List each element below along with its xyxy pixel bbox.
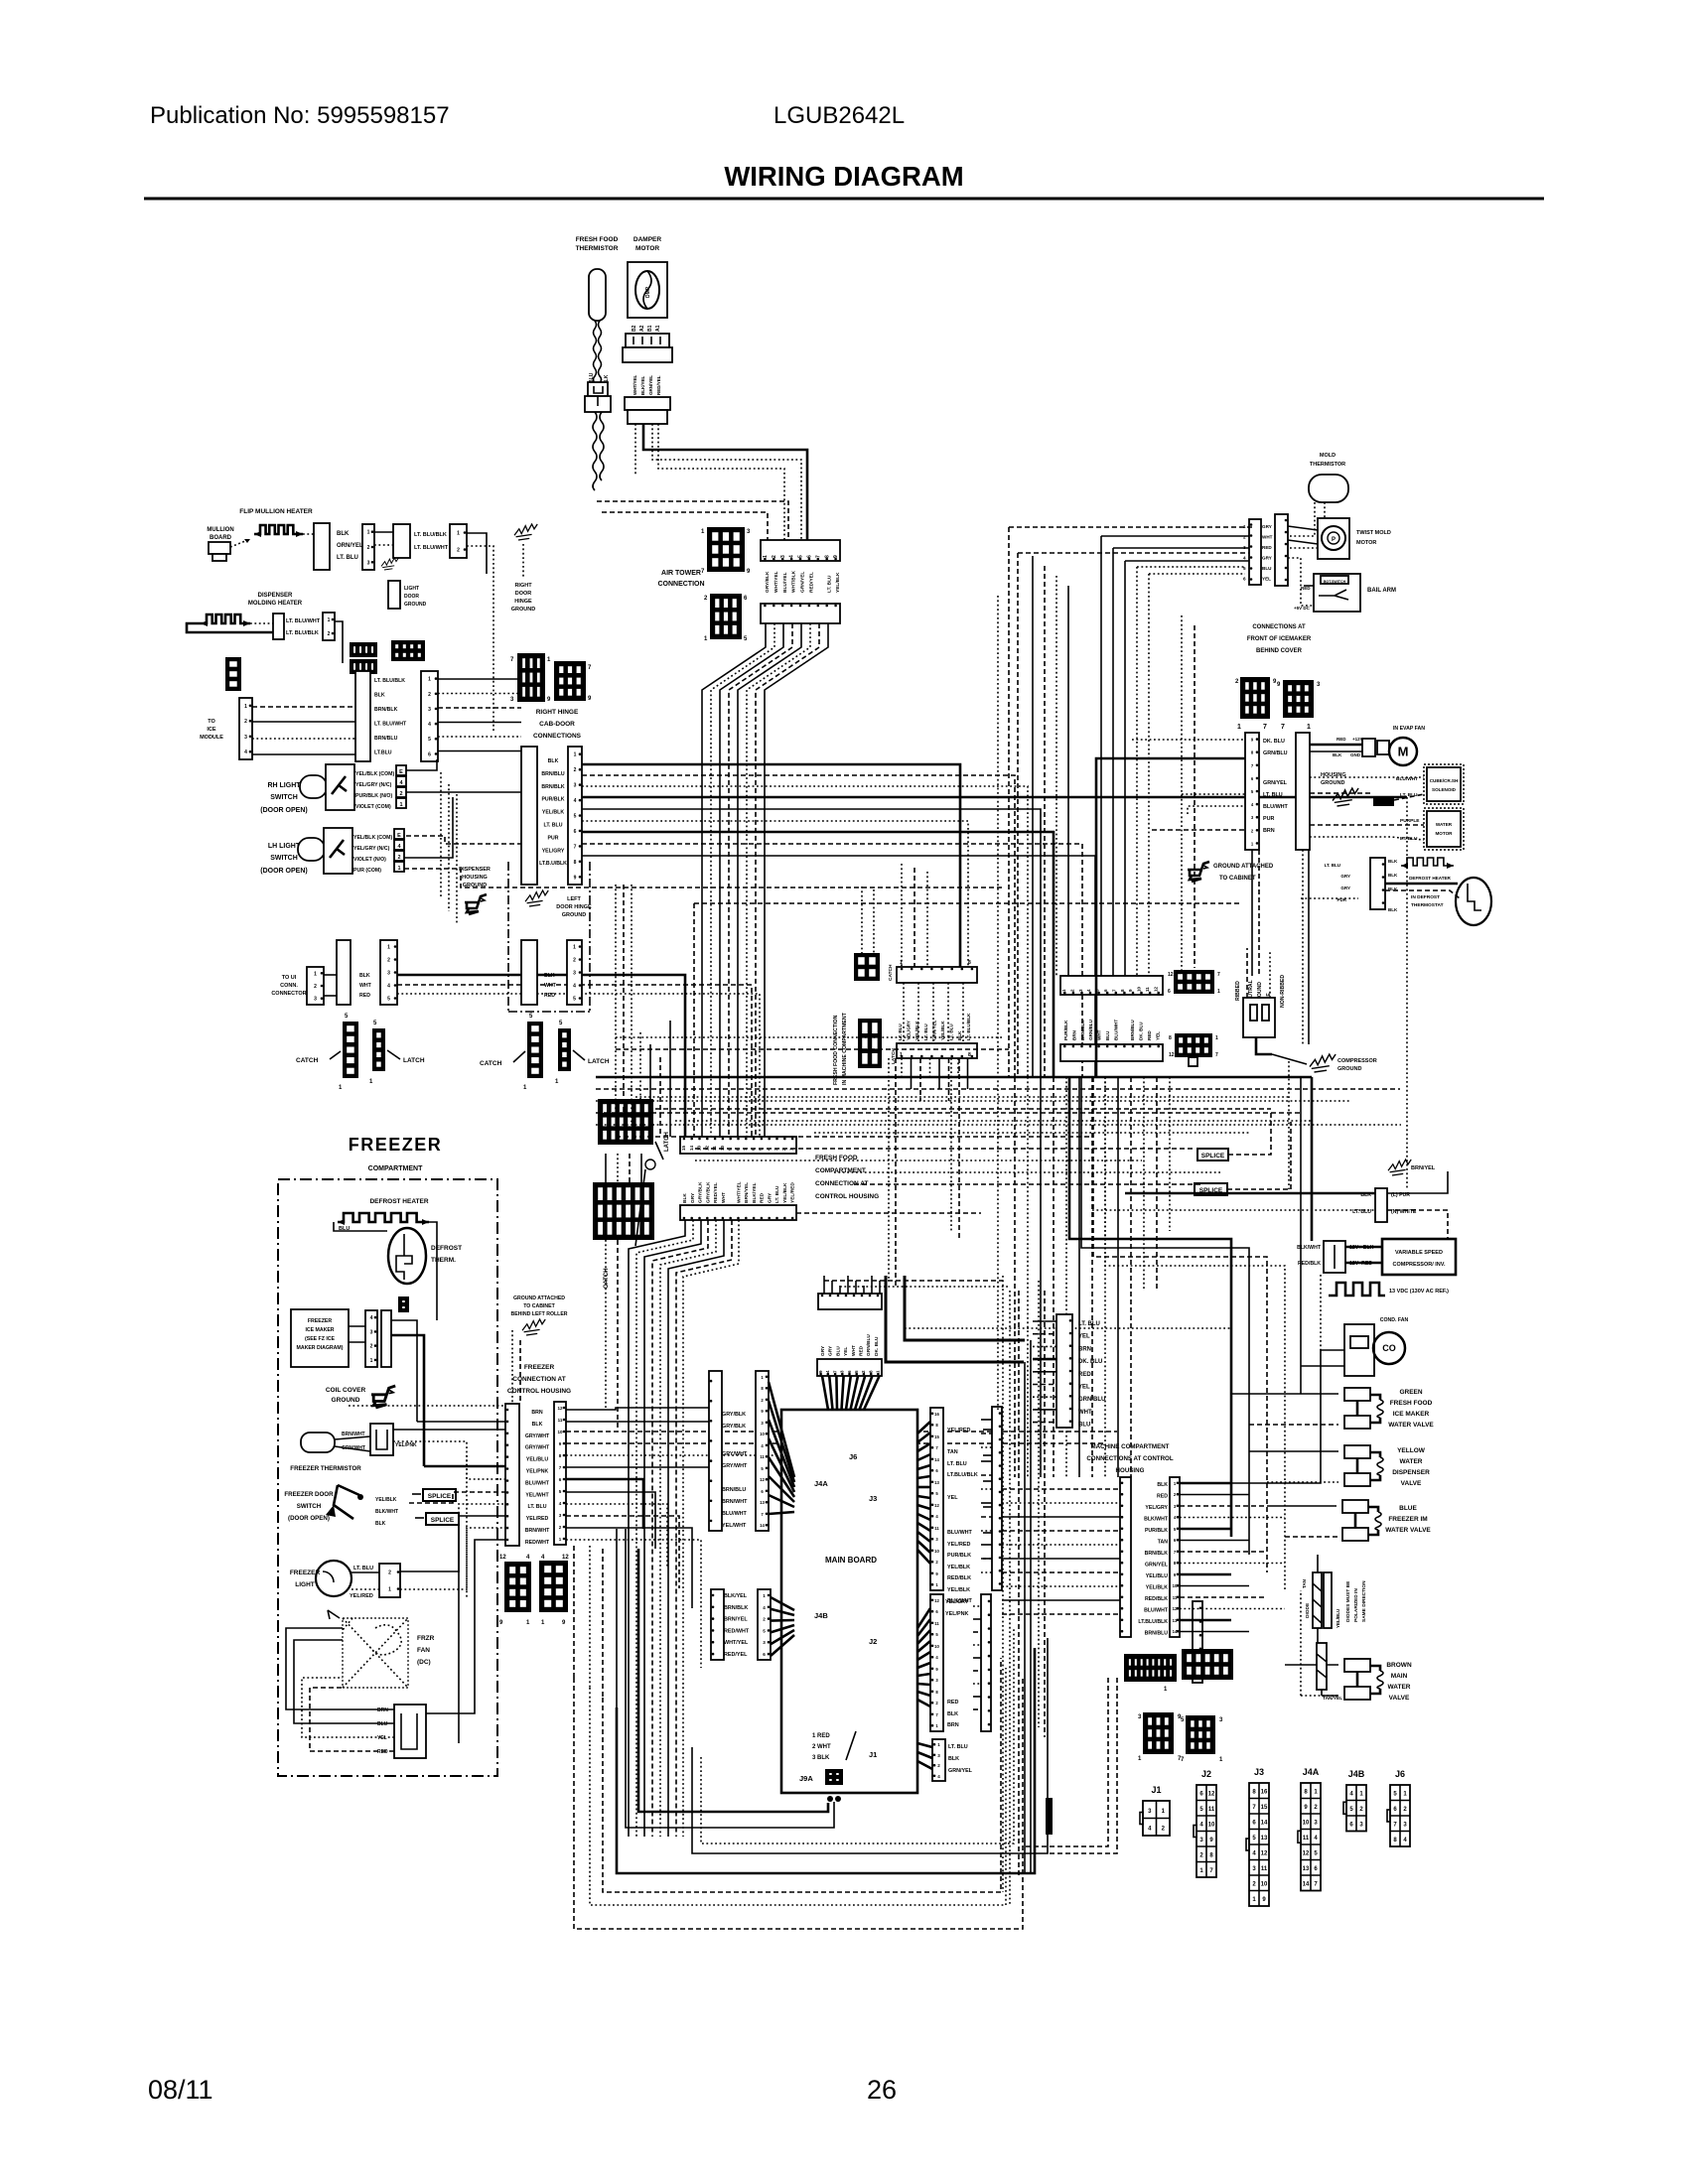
svg-text:WHT/BLK: WHT/BLK (791, 570, 797, 593)
svg-text:CO: CO (1382, 1343, 1396, 1353)
wire - mullion to right door hinge (467, 533, 487, 574)
svg-text:GROUND: GROUND (511, 607, 535, 613)
svg-text:FLIP MULLION HEATER: FLIP MULLION HEATER (239, 508, 313, 515)
svg-text:BRN/BLK: BRN/BLK (724, 1605, 748, 1611)
wire - mc strip feeders (1180, 1482, 1231, 1485)
svg-text:J3: J3 (1254, 1767, 1264, 1777)
svg-text:YEL/GRY: YEL/GRY (542, 848, 565, 854)
machine dark block bottom B (1182, 1649, 1233, 1680)
svg-text:1: 1 (900, 1052, 903, 1058)
svg-text:THERM.: THERM. (431, 1257, 456, 1264)
svg-text:ICE MAKER: ICE MAKER (305, 1327, 334, 1333)
svg-text:BRN/BLK: BRN/BLK (374, 707, 398, 713)
svg-text:MOTOR: MOTOR (635, 245, 659, 252)
svg-text:5: 5 (428, 737, 431, 743)
svg-text:FRONT OF ICEMAKER: FRONT OF ICEMAKER (1247, 636, 1312, 642)
left door hinge boundary (507, 862, 509, 1012)
svg-text:6: 6 (428, 751, 431, 757)
svg-text:LT.BLU/BLK: LT.BLU/BLK (1138, 1619, 1168, 1625)
wire - defrost heater to connector (429, 1222, 437, 1320)
svg-text:RED/WHT: RED/WHT (525, 1540, 550, 1546)
svg-text:WATER VALVE: WATER VALVE (1388, 1422, 1434, 1429)
J1 strip (932, 1739, 945, 1781)
LH switch pin boxes (394, 829, 404, 839)
svg-text:BROWN: BROWN (1386, 1662, 1412, 1669)
svg-text:WATER: WATER (1388, 1684, 1411, 1691)
freezer connection strip right (554, 1402, 566, 1545)
svg-text:2: 2 (574, 767, 577, 773)
svg-text:PUR: PUR (548, 835, 559, 841)
wire - thermistor twisted pair (594, 321, 597, 383)
svg-text:MAKER DIAGRAM): MAKER DIAGRAM) (297, 1345, 344, 1351)
svg-text:MAIN: MAIN (1391, 1673, 1408, 1680)
brn/yel splice (1388, 1160, 1411, 1175)
svg-text:LIGHT: LIGHT (404, 586, 419, 592)
svg-text:12: 12 (562, 1555, 569, 1561)
svg-text:BEHIND COVER: BEHIND COVER (1256, 648, 1303, 654)
svg-text:J4B: J4B (814, 1611, 828, 1620)
svg-text:LT. BLU/BLK: LT. BLU/BLK (966, 1013, 971, 1040)
svg-text:PUR: PUR (1263, 816, 1274, 822)
wire - J8 fan into board (822, 1376, 828, 1410)
svg-text:DEFROST HEATER: DEFROST HEATER (1409, 876, 1451, 881)
variable speed compressor box (1382, 1239, 1456, 1275)
svg-text:PUR/BLK: PUR/BLK (1063, 1020, 1068, 1040)
svg-text:YEL/BLK: YEL/BLK (542, 810, 564, 816)
svg-text:BRN/BLK: BRN/BLK (541, 784, 565, 790)
bail arm box (1314, 574, 1360, 612)
main board (781, 1410, 917, 1793)
wire - J8 trunk corners (886, 1276, 1024, 1362)
svg-text:BLK: BLK (375, 1521, 386, 1527)
svg-text:CONNECTIONS: CONNECTIONS (533, 733, 582, 740)
svg-text:1: 1 (573, 945, 576, 951)
svg-text:1: 1 (1215, 1035, 1218, 1041)
svg-text:CATCH: CATCH (296, 1057, 319, 1064)
svg-text:CATCH: CATCH (604, 1268, 610, 1289)
svg-text:8: 8 (968, 1052, 971, 1058)
cube crush solenoid box (1424, 764, 1464, 804)
svg-text:WATER VALVE: WATER VALVE (1385, 1527, 1431, 1534)
svg-text:YEL: YEL (843, 1347, 849, 1356)
wire - diode leads (1317, 1628, 1319, 1643)
svg-text:LT. BLU: LT. BLU (948, 1744, 968, 1750)
svg-text:2: 2 (244, 719, 247, 725)
svg-text:8: 8 (1169, 1035, 1172, 1041)
svg-text:TAN: TAN (1158, 1540, 1169, 1546)
svg-text:VIOLET (COM): VIOLET (COM) (355, 804, 391, 810)
svg-text:12: 12 (1261, 1851, 1268, 1857)
dc waveform (1329, 1283, 1385, 1296)
svg-text:CATCH: CATCH (480, 1060, 502, 1067)
machine strip right upper (1060, 976, 1163, 995)
wire - J4B fan (771, 1597, 794, 1610)
svg-text:BLK/WHT: BLK/WHT (1144, 1517, 1169, 1523)
svg-text:BRN/WHT: BRN/WHT (525, 1528, 550, 1534)
wire - bottom center risers (1038, 1281, 1040, 1727)
svg-text:YELLOW: YELLOW (1397, 1447, 1426, 1454)
svg-text:1 RED: 1 RED (812, 1733, 830, 1739)
svg-text:RED/WHT: RED/WHT (724, 1628, 750, 1634)
svg-text:BLU: BLU (1262, 566, 1272, 571)
svg-text:12: 12 (934, 1503, 939, 1508)
svg-text:1: 1 (1237, 724, 1241, 731)
svg-text:BRN/BLU: BRN/BLU (1130, 1020, 1135, 1040)
J4B strips (711, 1589, 724, 1660)
svg-text:DOOR HINGE: DOOR HINGE (556, 904, 592, 910)
svg-text:THERMISTOR: THERMISTOR (1310, 462, 1345, 468)
ice maker small block (398, 1297, 409, 1312)
wire - terminal leads (1125, 1192, 1375, 1195)
wire - icemaker lower strip feeders left (1132, 739, 1245, 741)
svg-text:5: 5 (573, 997, 576, 1003)
mullion strip 1 (362, 524, 374, 570)
svg-text:RED: RED (1262, 545, 1272, 550)
svg-text:LEFT: LEFT (567, 896, 581, 902)
right hinge grid B (554, 661, 586, 701)
svg-text:YEL/GRY: YEL/GRY (945, 1599, 969, 1605)
svg-text:10: 10 (1208, 1823, 1215, 1829)
svg-text:GROUND: GROUND (1321, 780, 1344, 786)
ice maker strip (365, 1310, 377, 1367)
wire - middle horizontal bus (596, 1076, 1312, 1079)
svg-text:MOLD: MOLD (1320, 453, 1336, 459)
svg-text:YEL: YEL (1078, 1334, 1090, 1340)
freezer light bulb (316, 1561, 352, 1596)
svg-text:GRN/YEL: GRN/YEL (948, 1768, 973, 1774)
machine connector letter strip B (981, 1594, 991, 1731)
svg-text:4: 4 (789, 555, 795, 558)
damper connector (626, 334, 669, 347)
svg-text:AIR TOWER: AIR TOWER (661, 570, 701, 577)
svg-text:BRN: BRN (1263, 828, 1275, 834)
left door hinge ground scribble (525, 890, 548, 906)
svg-text:RED: RED (760, 1192, 766, 1203)
to ice module connector (225, 657, 241, 691)
svg-text:BLK/YEL: BLK/YEL (640, 375, 645, 395)
svg-text:BLK: BLK (682, 1193, 688, 1203)
svg-text:IN MACHINE COMPARTMENT: IN MACHINE COMPARTMENT (842, 1012, 848, 1085)
svg-text:MOTOR: MOTOR (1356, 540, 1376, 546)
light door ground connector (388, 581, 400, 609)
svg-text:BEHIND LEFT ROLLER: BEHIND LEFT ROLLER (510, 1311, 567, 1317)
svg-text:IN DEFROST: IN DEFROST (1411, 894, 1440, 900)
svg-text:YEL/RED: YEL/RED (526, 1516, 549, 1522)
blue freezer im water valve (1342, 1500, 1368, 1513)
svg-text:DOOR: DOOR (515, 591, 532, 597)
machine dark block bottom A (1124, 1654, 1177, 1682)
air tower connector grid A (707, 527, 745, 572)
svg-text:LT.BLU: LT.BLU (374, 751, 392, 756)
svg-text:08/11: 08/11 (148, 2075, 213, 2105)
svg-text:DEFROST HEATER: DEFROST HEATER (369, 1198, 428, 1205)
svg-text:CONN.: CONN. (280, 983, 298, 989)
svg-text:SOLENOID: SOLENOID (1432, 787, 1457, 792)
svg-text:GRY/BLK: GRY/BLK (698, 1181, 704, 1203)
wire - latch grid feeders (605, 1154, 607, 1182)
freezer ice maker box (291, 1309, 349, 1367)
svg-text:YEL/BLK: YEL/BLK (375, 1497, 397, 1503)
svg-text:RED/YEL: RED/YEL (656, 375, 661, 395)
svg-text:2: 2 (328, 631, 331, 637)
wire - J strip stubs to letter strips (981, 1419, 992, 1421)
svg-text:YEL/GRY (N/C): YEL/GRY (N/C) (353, 846, 390, 852)
svg-text:13: 13 (1261, 1836, 1268, 1842)
left hinge lower strip A (521, 940, 537, 1005)
svg-text:POLARIZED IN: POLARIZED IN (1353, 1588, 1359, 1622)
svg-text:CONNECTION: CONNECTION (657, 581, 704, 588)
svg-text:3: 3 (573, 971, 576, 977)
header rule (144, 198, 1544, 201)
svg-text:LT. BLU: LT. BLU (1325, 863, 1340, 868)
svg-text:SPLICE: SPLICE (1201, 1153, 1225, 1160)
to UI strip 2 (337, 940, 351, 1005)
J9A connector (825, 1769, 843, 1785)
svg-text:LT.BLU/BLK: LT.BLU/BLK (947, 1472, 978, 1478)
svg-text:BLK: BLK (1388, 907, 1398, 912)
svg-text:YEL/BLU: YEL/BLU (1336, 1609, 1340, 1628)
svg-text:LATCH: LATCH (664, 1132, 670, 1152)
svg-text:DOOR: DOOR (404, 594, 419, 600)
svg-text:LT. BLU/BLK: LT. BLU/BLK (414, 532, 447, 538)
svg-text:YEL/BLU: YEL/BLU (1146, 1573, 1168, 1579)
dispenser heater connector (273, 614, 284, 639)
svg-text:DEFROST: DEFROST (431, 1245, 462, 1252)
svg-text:WHT/YEL: WHT/YEL (724, 1640, 749, 1646)
svg-text:13: 13 (934, 1480, 939, 1485)
svg-text:IN EVAP FAN: IN EVAP FAN (1393, 726, 1425, 732)
svg-text:SWITCH: SWITCH (270, 794, 298, 801)
svg-text:LT. BLU: LT. BLU (353, 1566, 373, 1571)
svg-text:WHT: WHT (359, 983, 372, 989)
svg-text:LT. BLU: LT. BLU (774, 1185, 780, 1203)
svg-text:LT. BLU: LT. BLU (1078, 1321, 1100, 1327)
svg-text:E: E (397, 833, 401, 839)
svg-text:7: 7 (1263, 724, 1267, 731)
svg-text:B2: B2 (632, 325, 637, 332)
svg-text:YEL/BLK: YEL/BLK (947, 1587, 970, 1593)
svg-text:CONTROL HOUSING: CONTROL HOUSING (815, 1193, 879, 1200)
svg-text:COIL COVER: COIL COVER (326, 1387, 366, 1394)
splice label 1 (335, 1436, 370, 1451)
svg-text:LH LIGHT: LH LIGHT (268, 843, 301, 850)
freezer thermistor (301, 1433, 335, 1452)
svg-text:GRY/WHT: GRY/WHT (722, 1451, 748, 1457)
svg-text:FRESH FOOD: FRESH FOOD (1390, 1400, 1433, 1407)
svg-text:BLU/WHT: BLU/WHT (722, 1511, 748, 1517)
svg-text:WHT: WHT (1097, 1029, 1102, 1040)
svg-text:VARIABLE SPEED: VARIABLE SPEED (1395, 1250, 1443, 1256)
svg-text:J1: J1 (869, 1750, 877, 1759)
right door hinge ground scribble (514, 524, 537, 540)
svg-text:J2: J2 (869, 1637, 877, 1646)
svg-text:YEL/PNK: YEL/PNK (945, 1611, 968, 1617)
svg-text:ICE: ICE (207, 727, 216, 733)
svg-text:GRN/BLU: GRN/BLU (1078, 1397, 1105, 1403)
freezer light connector (379, 1564, 400, 1597)
flip mullion heater element (254, 525, 303, 534)
svg-text:CONNECTION AT: CONNECTION AT (815, 1180, 868, 1187)
svg-text:GROUND ATTACHED: GROUND ATTACHED (1213, 864, 1274, 870)
svg-text:HOUSING: HOUSING (1116, 1467, 1145, 1474)
svg-text:1: 1 (763, 555, 769, 558)
wire - risers above ff machine strips (901, 864, 903, 967)
svg-text:SPLICE: SPLICE (431, 1517, 455, 1524)
defrost heater connector right (1370, 858, 1385, 909)
svg-text:YEL: YEL (377, 1735, 387, 1741)
svg-text:CONNECTIONS AT: CONNECTIONS AT (1252, 624, 1306, 630)
svg-text:ORN/YEL: ORN/YEL (337, 543, 363, 549)
wire - upper strip stubs (1033, 1320, 1056, 1322)
svg-text:LGUB2642L: LGUB2642L (774, 102, 905, 129)
right hinge strip right (568, 747, 582, 885)
svg-text:WATER: WATER (1400, 1458, 1423, 1465)
svg-text:J4A: J4A (814, 1479, 828, 1488)
svg-text:WHT/YEL: WHT/YEL (774, 571, 779, 593)
right hinge grid A (517, 653, 545, 702)
connector blocks 3352 3353 (350, 642, 377, 657)
svg-text:3 BLK: 3 BLK (812, 1755, 830, 1761)
icemaker grid A (1240, 677, 1270, 719)
svg-text:BLK: BLK (947, 1711, 958, 1717)
svg-text:BOARD: BOARD (210, 535, 232, 541)
air tower strip lower (761, 604, 840, 623)
svg-text:BRN: BRN (1078, 1346, 1091, 1352)
svg-text:12: 12 (1168, 972, 1174, 978)
svg-text:BLK: BLK (374, 693, 385, 699)
svg-text:J6: J6 (849, 1452, 857, 1461)
svg-text:(SEE FZ ICE: (SEE FZ ICE (305, 1336, 336, 1342)
svg-text:BRN: BRN (1071, 1029, 1076, 1040)
svg-text:11: 11 (1303, 1836, 1310, 1842)
svg-text:DIODES MUST BE: DIODES MUST BE (1345, 1580, 1351, 1622)
svg-text:DK. BLU: DK. BLU (1139, 1022, 1144, 1040)
svg-text:HINGE: HINGE (514, 599, 532, 605)
wire - J1 fan (917, 1743, 932, 1747)
svg-text:5: 5 (798, 555, 804, 558)
svg-text:RED: RED (1336, 737, 1346, 742)
svg-text:YEL/PNK: YEL/PNK (395, 1442, 417, 1448)
svg-text:BLU: BLU (835, 1346, 841, 1356)
svg-text:GRY/BLK: GRY/BLK (722, 1412, 746, 1418)
svg-text:ICE MAKER: ICE MAKER (1393, 1411, 1430, 1418)
svg-text:LT.B.U/BLK: LT.B.U/BLK (539, 861, 567, 867)
svg-text:E: E (399, 769, 403, 775)
machine dark block A (1174, 970, 1214, 994)
svg-text:RED/BLK: RED/BLK (947, 1575, 971, 1581)
svg-text:SAME DIRECTION: SAME DIRECTION (1361, 1580, 1367, 1622)
latch connector (558, 1028, 571, 1071)
svg-text:7: 7 (815, 555, 821, 558)
svg-text:YEL: YEL (947, 1495, 958, 1501)
wire - UI bus to left hinge strips (397, 975, 685, 1137)
dispenser housing ground clamp (465, 894, 487, 914)
svg-text:VIOLET (N/O): VIOLET (N/O) (353, 857, 386, 863)
svg-text:BLK: BLK (359, 973, 370, 979)
svg-text:7: 7 (1281, 724, 1285, 731)
svg-text:BRN: BRN (377, 1707, 388, 1713)
svg-text:12: 12 (1153, 986, 1158, 992)
svg-text:PUR/BLK: PUR/BLK (947, 1553, 971, 1559)
svg-text:GRY: GRY (1340, 874, 1350, 879)
svg-text:RIGHT: RIGHT (514, 583, 532, 589)
svg-text:BLK: BLK (532, 1422, 543, 1428)
svg-text:BRN/YEL: BRN/YEL (1411, 1165, 1436, 1171)
svg-text:LATCH: LATCH (588, 1058, 610, 1065)
svg-text:J1: J1 (1151, 1785, 1161, 1795)
svg-text:13 VDC (130V AC REF.): 13 VDC (130V AC REF.) (1389, 1289, 1449, 1295)
svg-text:CUBE/CR.SH: CUBE/CR.SH (1430, 778, 1459, 783)
svg-text:BLU: BLU (1105, 1030, 1110, 1040)
svg-text:LT. BLU: LT. BLU (947, 1461, 967, 1467)
svg-text:GRN/BLU: GRN/BLU (866, 1334, 872, 1356)
svg-text:DISPENSER: DISPENSER (258, 593, 293, 599)
wire - J8 riser bundle (823, 1276, 825, 1294)
svg-text:YEL/BLK (COM): YEL/BLK (COM) (355, 771, 394, 777)
svg-text:10: 10 (1303, 1821, 1310, 1827)
svg-text:12: 12 (557, 1406, 563, 1411)
svg-text:YEL/PNK: YEL/PNK (526, 1469, 549, 1475)
svg-text:BLK: BLK (544, 973, 555, 979)
svg-text:BLK: BLK (1388, 859, 1398, 864)
J8 connector strips above board (818, 1294, 882, 1309)
left roller ground scribble (522, 1319, 545, 1335)
wire - far right risers (1300, 1077, 1302, 1394)
icemaker grid B (1283, 680, 1314, 718)
svg-text:TWIST MOLD: TWIST MOLD (1356, 530, 1391, 536)
svg-text:YEL/BLK: YEL/BLK (1146, 1585, 1168, 1591)
svg-text:BRN/BLK: BRN/BLK (1080, 1020, 1085, 1040)
svg-text:12: 12 (760, 1477, 765, 1482)
defrost thermostat (388, 1228, 426, 1284)
svg-text:FREEZER IM: FREEZER IM (1388, 1516, 1427, 1523)
svg-text:WHT: WHT (721, 1192, 727, 1203)
svg-text:M: M (1398, 745, 1409, 759)
machine dark block B (1175, 1033, 1212, 1057)
power plug (1243, 998, 1275, 1037)
wire - ice maker to strip (349, 1325, 365, 1327)
svg-text:BRN/BLK: BRN/BLK (1145, 1551, 1169, 1557)
svg-text:WHT: WHT (851, 1345, 857, 1356)
svg-text:GROUND: GROUND (562, 912, 586, 918)
svg-text:1: 1 (388, 1587, 391, 1593)
svg-text:VALVE: VALVE (1389, 1695, 1410, 1702)
wire - center dotted risers (1002, 1276, 1004, 1892)
svg-text:2: 2 (387, 958, 390, 964)
svg-text:4: 4 (574, 798, 577, 804)
svg-text:10: 10 (760, 1432, 765, 1436)
wire - damper to air tower bundle (643, 424, 807, 540)
svg-text:BRN/YEL: BRN/YEL (744, 1182, 750, 1203)
svg-text:2: 2 (772, 555, 777, 558)
svg-text:J4B: J4B (1348, 1769, 1365, 1779)
wire - fan loop (286, 1628, 394, 1709)
svg-text:CONNECTOR: CONNECTOR (271, 991, 306, 997)
door strip (421, 671, 438, 761)
svg-text:BLK/WHT: BLK/WHT (375, 1509, 398, 1515)
svg-text:11: 11 (1261, 1866, 1268, 1872)
svg-text:1: 1 (399, 802, 402, 808)
svg-text:BLUE: BLUE (1399, 1505, 1417, 1512)
svg-text:RED/YEL: RED/YEL (713, 1182, 719, 1203)
svg-text:6: 6 (574, 829, 577, 835)
svg-text:THERMOSTAT: THERMOSTAT (1411, 902, 1444, 908)
svg-text:DK. BLU: DK. BLU (1263, 739, 1285, 745)
svg-text:MOTOR: MOTOR (1435, 831, 1453, 836)
svg-text:MOLDING HEATER: MOLDING HEATER (248, 601, 303, 607)
svg-text:GRN/BLU: GRN/BLU (1088, 1019, 1093, 1040)
svg-text:10: 10 (934, 1644, 939, 1649)
